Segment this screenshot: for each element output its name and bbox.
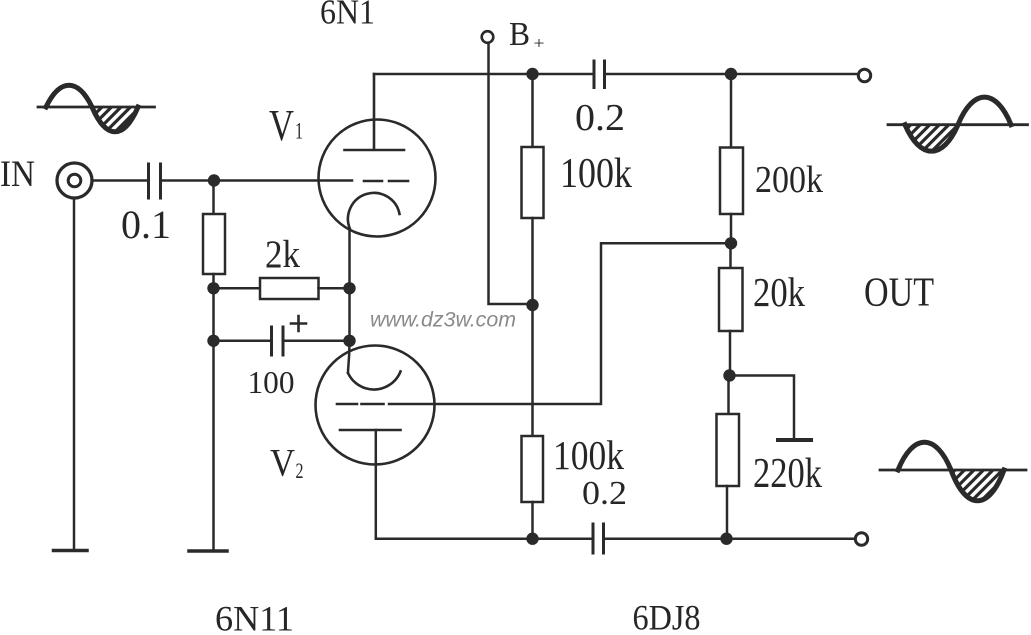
V2 plate (inverted) — [340, 429, 401, 432]
V1 cathode — [348, 193, 400, 229]
wire: 2k row left — [214, 287, 261, 290]
V2 grid dashes — [337, 403, 384, 406]
output terminal (bottom) — [855, 533, 867, 545]
node: 200k top — [725, 68, 737, 80]
svg-text:B: B — [509, 16, 530, 53]
output sine wave bottom baseline — [880, 469, 1026, 472]
wire: top plate rail — [374, 73, 594, 76]
svg-text:OUT: OUT — [864, 269, 934, 315]
wire: B+ drop — [489, 44, 533, 305]
input sine wave curve — [46, 85, 138, 132]
wire: 20k bottom lead — [729, 331, 732, 376]
V1 plate — [345, 74, 405, 150]
svg-text:100k: 100k — [553, 432, 624, 478]
output sine wave bottom hatched trough — [951, 470, 1004, 501]
node: 100k lower bottom — [526, 533, 538, 545]
V1 grid dashes — [364, 180, 408, 183]
node: 20k/220k junction — [723, 369, 735, 381]
node: cap100 row left — [207, 335, 219, 347]
svg-text:20k: 20k — [753, 269, 805, 315]
output sine wave top curve — [905, 97, 1011, 151]
svg-text:2: 2 — [296, 458, 304, 483]
svg-text:0.1: 0.1 — [121, 202, 171, 247]
node: 2k row right (cathode column) — [343, 282, 355, 294]
resistor 20k — [719, 268, 743, 331]
node: 220k bottom — [720, 533, 732, 545]
wire: bottom rail right of cap to output terminal — [604, 537, 854, 540]
svg-text:6N11: 6N11 — [215, 599, 294, 635]
resistor 100k (upper) — [522, 147, 544, 218]
output sine wave top baseline — [888, 123, 1028, 126]
wire: IN terminal to ground — [73, 199, 76, 549]
input terminal — [57, 163, 92, 198]
wire: 220k bottom lead — [726, 486, 729, 539]
node: 200k/20k junction — [725, 237, 737, 249]
wire: capacitor 0.1 to V1 grid — [161, 179, 352, 182]
wire: junction to right ground — [730, 376, 795, 439]
node: cap100 row right (cathode column) — [343, 335, 355, 347]
wire: node to grid resistor — [212, 181, 215, 215]
wire: 220k top lead — [727, 376, 730, 415]
wire: cap100 row left — [214, 340, 272, 343]
wire: 100k upper bottom lead down through B+ node to 100k lower — [531, 218, 534, 436]
output sine wave bottom curve — [898, 442, 1004, 501]
svg-text:V: V — [269, 101, 294, 150]
resistor 200k — [720, 148, 743, 215]
wire: junction to V2 grid — [389, 243, 731, 404]
ground (right) — [778, 438, 811, 442]
wire: 200k bottom lead — [730, 214, 733, 243]
resistor (grid leak) — [203, 214, 225, 274]
svg-text:6N1: 6N1 — [320, 0, 375, 32]
wire: top rail after cap to output terminal — [605, 73, 856, 76]
resistor 2k — [260, 278, 319, 299]
V2 cathode (inverted) — [348, 372, 401, 390]
svg-text:220k: 220k — [753, 451, 822, 497]
svg-text:200k: 200k — [755, 159, 824, 201]
wire: bottom rail left of cap — [376, 537, 593, 540]
svg-text:+: + — [534, 34, 545, 53]
svg-text:100k: 100k — [560, 151, 632, 197]
wire: V1 cathode lead down — [348, 229, 351, 288]
output terminal (top) — [858, 69, 870, 81]
svg-text:www.dz3w.com: www.dz3w.com — [370, 308, 516, 332]
wire: V2 plate lead to bottom rail — [375, 430, 378, 539]
capacitor 0.2 (top) — [594, 61, 605, 88]
wire: 100k lower bottom lead — [531, 502, 534, 539]
svg-text:0.2: 0.2 — [575, 97, 625, 139]
svg-text:100: 100 — [248, 365, 295, 400]
B+ terminal — [482, 31, 494, 43]
output sine wave top hatched trough — [905, 125, 958, 151]
wire: 200k top lead — [730, 74, 733, 148]
svg-text:2k: 2k — [265, 233, 300, 276]
ground (under grid resistor) — [189, 549, 227, 553]
svg-text:0.2: 0.2 — [582, 475, 627, 512]
wire: IN terminal to capacitor 0.1 — [93, 179, 148, 182]
input sine wave baseline — [38, 106, 155, 109]
tube V2 envelope — [316, 346, 435, 465]
wire: resistor to 2k row and ground — [212, 274, 215, 549]
tube V1 envelope — [319, 120, 436, 237]
resistor 100k (lower) — [522, 436, 544, 502]
capacitor 0.2 (bottom) — [593, 524, 604, 553]
wire: 20k top lead — [729, 243, 732, 268]
svg-text:IN: IN — [0, 154, 35, 195]
wire: cap100 row right — [284, 340, 350, 343]
wire: 100k upper top lead — [531, 74, 534, 147]
svg-text:6DJ8: 6DJ8 — [633, 598, 701, 635]
input sine wave hatched trough — [92, 107, 138, 132]
wire: cathode column between nodes — [348, 288, 351, 341]
wire: 2k row right — [319, 287, 350, 290]
plus sign of capacitor 100 — [291, 316, 306, 331]
svg-text:V: V — [270, 442, 295, 485]
capacitor 0.1 — [149, 164, 161, 198]
svg-text:1: 1 — [295, 119, 303, 144]
node: 2k row left — [207, 282, 219, 294]
node: B+ junction — [526, 299, 538, 311]
resistor 220k — [717, 414, 740, 486]
node: 100k top — [526, 68, 538, 80]
capacitor 100 (electrolytic) — [272, 327, 284, 355]
ground (left, under IN) — [54, 549, 88, 553]
wire: cathode column into V2 — [348, 341, 350, 373]
node: grid input — [208, 174, 220, 186]
